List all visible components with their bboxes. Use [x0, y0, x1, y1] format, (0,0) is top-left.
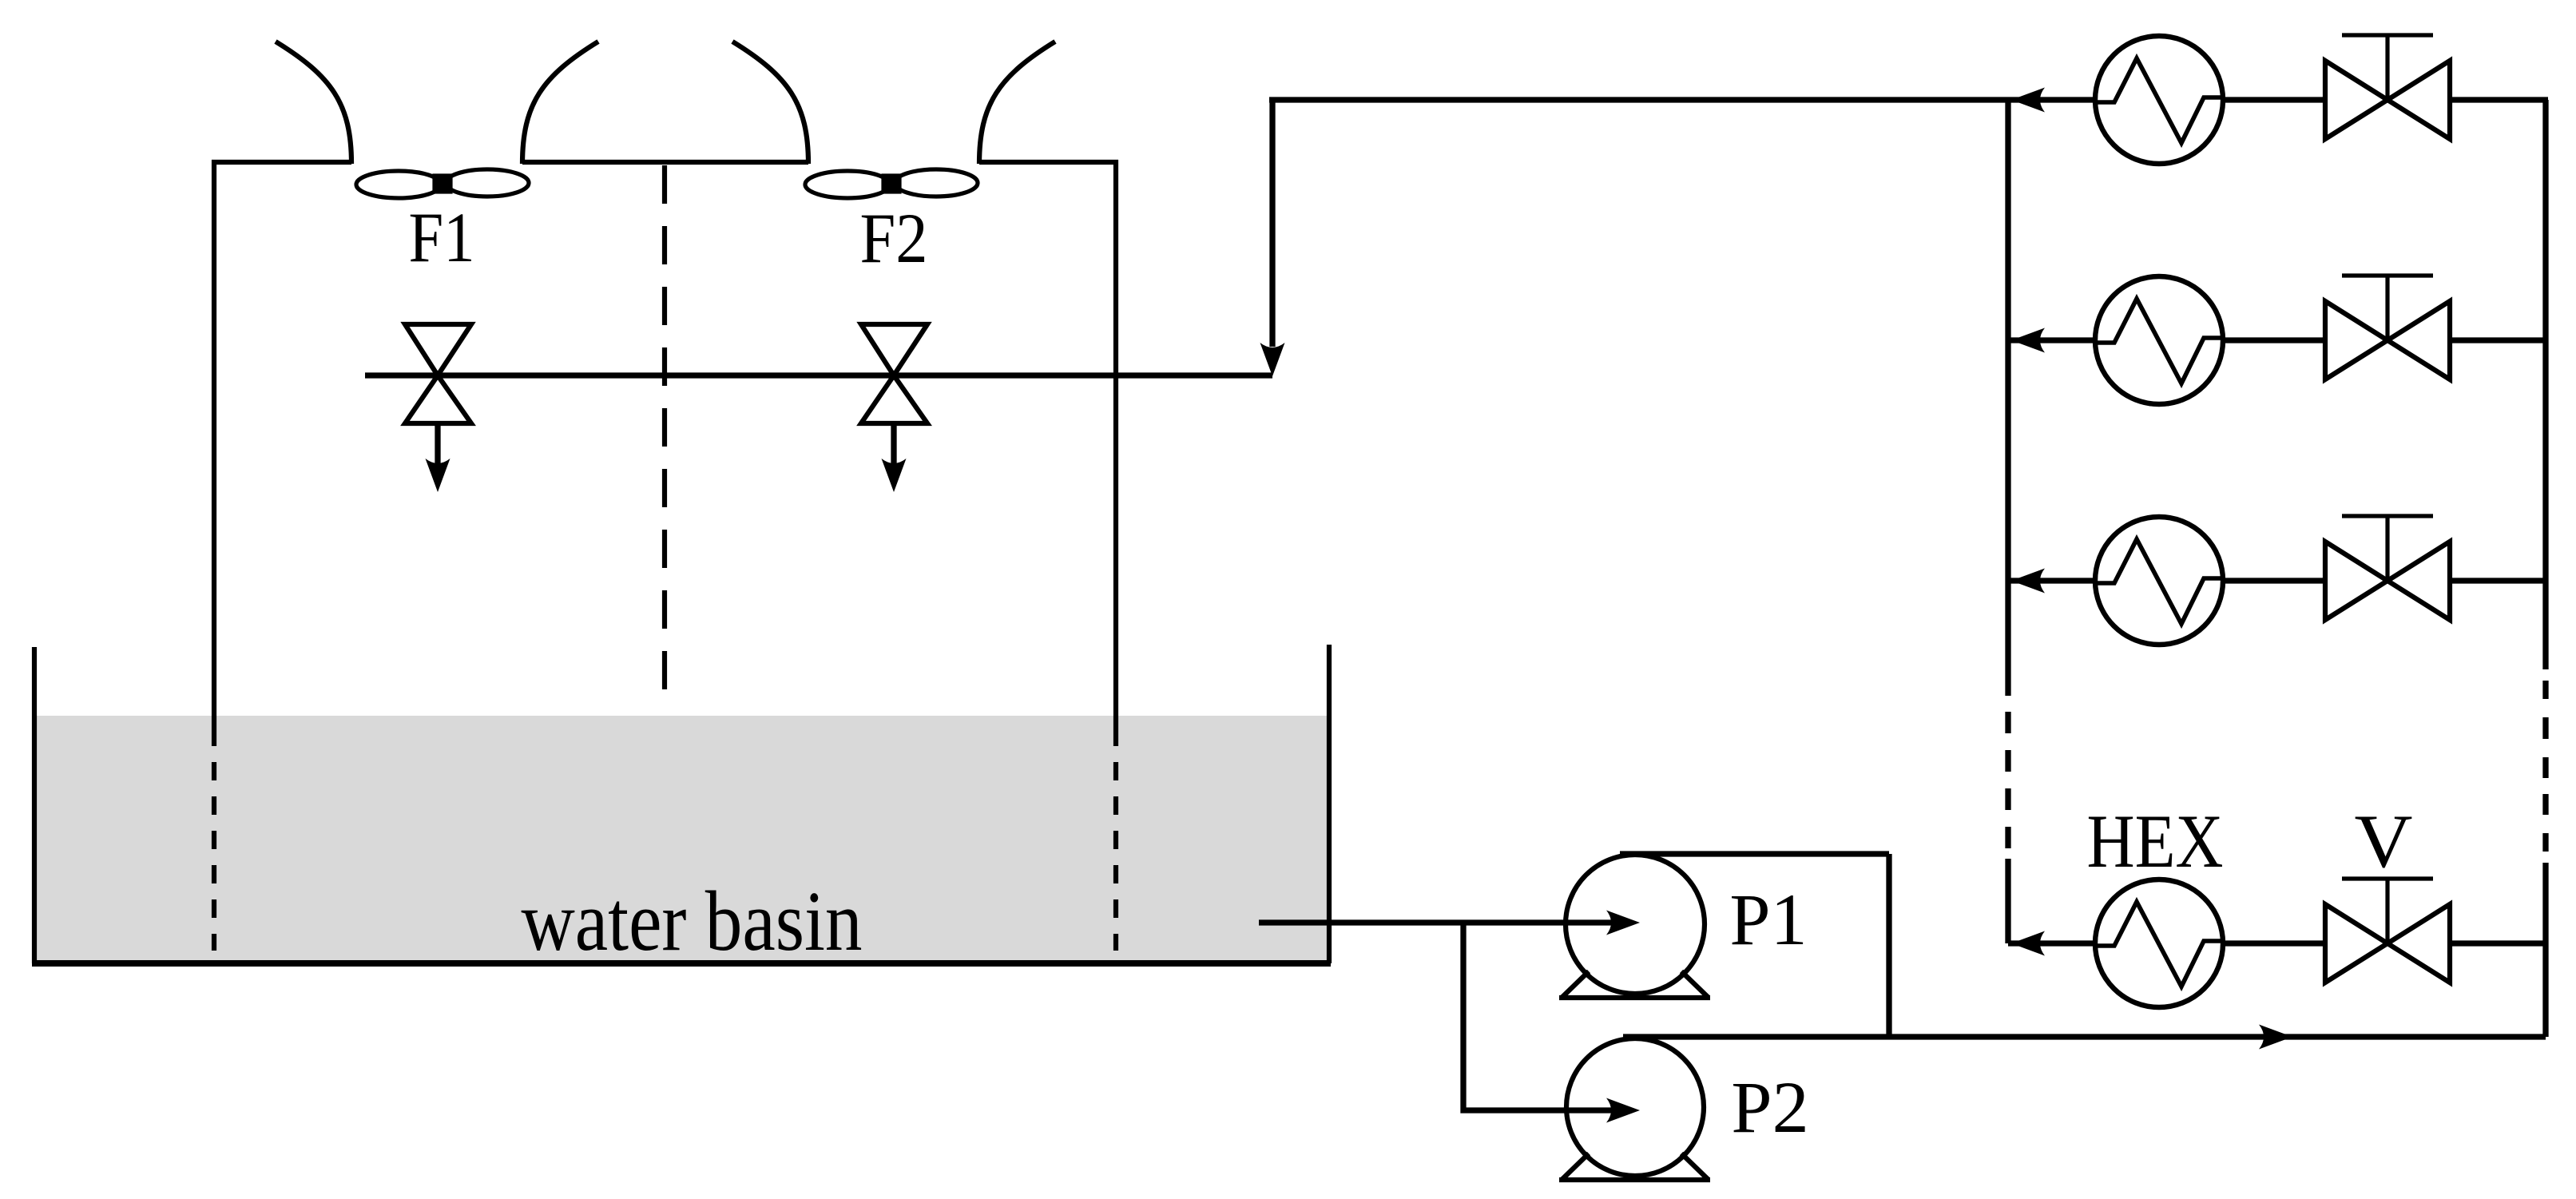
fan F2 propeller [805, 169, 978, 198]
heat exchanger row 3 zigzag [2095, 539, 2223, 624]
suction branch down to P2 [1463, 923, 1629, 1110]
combined discharge pipe to supply manifold [1623, 1034, 2546, 1039]
cooling tower left wall (solid above water) [212, 160, 216, 746]
heat exchanger row 4 circle (HEX) [2095, 879, 2223, 1007]
suction arrow into P2 [1606, 1098, 1640, 1123]
left collector manifold (solid upper) [2005, 100, 2010, 696]
heat exchanger row 2 zigzag [2095, 299, 2223, 383]
valve row 3 [2325, 542, 2450, 620]
heat exchanger row 1 circle [2095, 36, 2223, 164]
spray nozzle line 1 [435, 423, 440, 463]
valve row 1 [2325, 61, 2450, 139]
spray valve 1 [405, 324, 471, 423]
discharge arrow (right) [2259, 1025, 2292, 1050]
heat exchanger row 1: arrow into manifold [2011, 88, 2045, 113]
valve row 2 handle [2342, 276, 2433, 340]
water basin left wall [32, 647, 37, 963]
valve row 4 handle [2342, 879, 2433, 943]
svg-text:F2: F2 [860, 200, 928, 278]
heat exchanger row 4: branch pipe from manifold [2008, 940, 2095, 946]
P1 discharge pipe (top tangent) [1620, 851, 1889, 856]
valve row 4 (V) [2325, 904, 2450, 983]
svg-text:water basin: water basin [522, 875, 863, 969]
valve row 3 handle [2342, 516, 2433, 581]
spray nozzle line 2 [891, 423, 896, 463]
fan stack 2 right bell curve [979, 42, 1055, 164]
fan stack 2 left bell curve [732, 42, 808, 164]
cooling tower top deck left segment [212, 160, 351, 165]
cooling tower right wall (solid above water) [1113, 160, 1118, 746]
hot water return top pipe [1269, 97, 2095, 102]
fan F1 propeller [356, 169, 529, 198]
svg-text:F1: F1 [409, 199, 475, 277]
suction arrow into P1 [1606, 911, 1640, 935]
row 2 pipe HEX to valve [2223, 337, 2325, 343]
cooling tower top deck right segment [979, 160, 1118, 165]
spray nozzle arrow 1 [426, 459, 451, 492]
right supply manifold (dashed middle) [2542, 681, 2548, 852]
valve row 1 handle [2342, 35, 2433, 100]
pump P1 circle [1566, 855, 1705, 994]
pump P1 feet [1559, 971, 1710, 998]
right supply manifold (solid lower) [2542, 863, 2548, 1037]
heat exchanger row 3: branch pipe from manifold [2008, 578, 2095, 583]
right supply manifold (solid upper) [2542, 100, 2548, 669]
heat exchanger row 3 circle [2095, 517, 2223, 645]
spray nozzle arrow 2 [882, 459, 907, 492]
pump suction pipe from basin [1259, 919, 1629, 925]
row 3 pipe valve to supply manifold [2450, 578, 2546, 583]
row 3 pipe HEX to valve [2223, 578, 2325, 583]
heat exchanger row 4 arrow [2011, 931, 2045, 956]
pump P2 feet [1559, 1153, 1710, 1180]
return riser into spray header [1269, 100, 1275, 347]
cooling tower right wall (dashed below water) [1113, 762, 1118, 951]
spray header pipe [365, 372, 1272, 378]
P1 discharge drop [1886, 854, 1891, 1037]
row 2 pipe valve to supply manifold [2450, 337, 2546, 343]
cooling tower cell partition (dashed) [662, 165, 667, 701]
row 4 pipe valve to supply manifold [2450, 940, 2546, 946]
row 1 pipe valve to supply manifold [2450, 97, 2548, 102]
cooling tower left wall (dashed below water) [212, 762, 216, 951]
spray valve 2 [861, 324, 927, 423]
valve row 2 [2325, 301, 2450, 379]
fan stack 1 right bell curve [522, 42, 598, 164]
heat exchanger row 1 zigzag [2095, 58, 2223, 143]
heat exchanger row 2: branch pipe from manifold [2008, 337, 2095, 343]
row 1 pipe HEX to valve [2223, 97, 2325, 102]
heat exchanger row 2 circle [2095, 276, 2223, 404]
pump P2 circle [1566, 1038, 1704, 1176]
row 4 pipe HEX to valve [2223, 940, 2325, 946]
svg-text:P1: P1 [1729, 879, 1807, 960]
heat exchanger row 3 arrow [2011, 569, 2045, 594]
water basin fill [37, 716, 1327, 961]
cooling tower top deck middle segment [522, 160, 808, 165]
left collector manifold (solid lower) [2005, 859, 2010, 943]
heat exchanger row 2 arrow [2011, 328, 2045, 353]
left collector manifold (dashed middle) [2005, 712, 2010, 848]
return riser arrow (down) [1260, 343, 1285, 376]
water basin right wall [1327, 645, 1332, 963]
water basin bottom [32, 960, 1331, 967]
svg-text:P2: P2 [1731, 1066, 1808, 1148]
heat exchanger row 4 zigzag [2095, 902, 2223, 987]
svg-text:HEX: HEX [2087, 799, 2224, 883]
svg-text:V: V [2355, 799, 2413, 883]
fan stack 1 left bell curve [276, 42, 351, 164]
